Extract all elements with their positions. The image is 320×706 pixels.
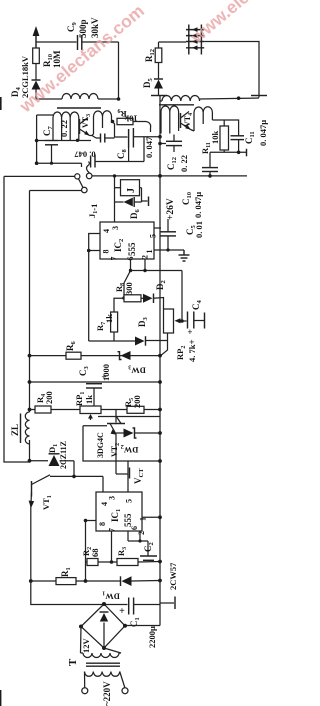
T4 primary winding A <box>161 106 179 134</box>
svg-text:0. 01: 0. 01 <box>194 221 204 238</box>
svg-text:1000: 1000 <box>101 364 111 381</box>
left bus x4 (switch A return) <box>4 176 30 462</box>
svg-text:ZL: ZL <box>10 424 20 436</box>
svg-text:0. 22: 0. 22 <box>179 155 189 172</box>
IC2 pin5 wire and ground <box>154 248 190 261</box>
svg-text:+: + <box>119 606 125 617</box>
svg-text:200: 200 <box>132 395 142 408</box>
capacitor C1 2200u <box>129 598 160 615</box>
IC2 pin6/2 wires down <box>124 259 182 321</box>
capacitor C3 1000 <box>86 384 102 406</box>
svg-text:2CZ11Z: 2CZ11Z <box>59 441 68 469</box>
stub C8 right leg <box>143 137 145 162</box>
VT2 base wire to pin5 rail (y461) <box>83 426 162 463</box>
T3 primary winding A <box>53 112 79 140</box>
right bus bottom / output terminal <box>160 581 175 626</box>
capacitor C9 500p 30kV <box>78 35 119 50</box>
capacitor C4 <box>180 312 204 329</box>
wire R9 node down to C8 <box>113 122 128 138</box>
resistor R11 10k <box>220 126 229 150</box>
resistor R1 <box>56 578 76 585</box>
resistor R8 300 <box>124 295 141 302</box>
T4 core <box>159 104 194 106</box>
rail R6/DW3 (y355.6) <box>30 355 161 357</box>
IC1 pin6/2 wires + capacitor C2 <box>128 531 157 560</box>
resistor R7 1k <box>111 298 124 341</box>
svg-text:3: 3 <box>108 496 117 500</box>
T3 primary winding B <box>92 111 112 136</box>
op-amp-timer IC2 555 <box>100 222 154 259</box>
DC+ rail (y604.5) <box>31 581 128 605</box>
capacitor C7 <box>37 141 58 165</box>
wire VT2 collector rail <box>98 416 160 418</box>
resistor R6 <box>66 352 81 359</box>
svg-text:6: 6 <box>130 526 139 530</box>
R2/R3 rail (y562) <box>86 531 118 564</box>
transformer T secondary <box>81 627 122 658</box>
zener DW3 <box>118 351 131 360</box>
terminal bar (D5 / T4 secondary) <box>151 95 167 97</box>
IC1 pin5 wire up <box>127 461 129 492</box>
svg-text:+26V: +26V <box>166 198 176 220</box>
electrode mesh <box>186 25 204 55</box>
svg-text:1k: 1k <box>84 395 94 404</box>
edge artifact <box>0 97 2 110</box>
IC1 pin1 wire right <box>142 515 162 519</box>
svg-text:0. 047: 0. 047 <box>144 136 154 158</box>
zener DW2 <box>116 428 160 438</box>
resistor R9 10k <box>117 118 133 124</box>
IC2 pin3 wire up <box>114 202 116 222</box>
capacitor C12 0.22 <box>160 135 182 153</box>
diode D6 <box>115 188 149 207</box>
resistor R4 200 <box>35 406 51 413</box>
svg-text:2200μ: 2200μ <box>147 626 157 648</box>
capacitor C10 0.047u <box>202 152 218 176</box>
svg-text:8: 8 <box>102 250 111 254</box>
transistor VT1 <box>29 475 50 581</box>
watermark www.elecfans.com <box>15 0 319 117</box>
diode D3 <box>89 336 149 346</box>
wire R9 right with hook <box>133 122 151 133</box>
svg-text:1k: 1k <box>104 314 114 323</box>
capacitor 0.047 (VT3 emitter) <box>92 134 115 143</box>
capacitor C5 0.01 <box>154 219 176 250</box>
timer IC1 555 <box>96 492 142 531</box>
wire T3 primary bottom rail <box>58 140 91 142</box>
T core <box>86 663 120 666</box>
svg-text:3: 3 <box>111 226 120 230</box>
svg-text:4: 4 <box>100 502 109 506</box>
wire C9 right down to T3 secondary <box>118 42 120 99</box>
svg-text:2: 2 <box>137 531 146 535</box>
rail R4/RP1/R5 (y409.5) <box>30 409 161 411</box>
svg-text:12V: 12V <box>81 638 91 654</box>
svg-text:2CW57: 2CW57 <box>168 562 178 590</box>
svg-text:500p: 500p <box>78 19 88 38</box>
node T3 secondary right <box>117 97 121 101</box>
transistor VT4 <box>181 112 195 132</box>
svg-text:10k: 10k <box>210 131 220 145</box>
svg-text:T: T <box>67 658 79 666</box>
resistor R10 <box>33 48 40 64</box>
wire T4 primary right to C11 <box>212 120 238 136</box>
svg-text:0. 047: 0. 047 <box>74 150 96 160</box>
svg-text:300: 300 <box>124 282 134 295</box>
rail C3 (y382) <box>30 381 161 383</box>
terminal bar (mesh return) <box>251 95 267 97</box>
resistor R3 <box>117 559 138 566</box>
lower rail from bridge right <box>125 625 160 627</box>
R1/DW1 rail (y581) <box>29 579 56 583</box>
wire mesh top <box>159 41 187 43</box>
wire C9 top <box>36 41 77 43</box>
node R9 left <box>111 120 115 124</box>
T4 primary winding B <box>194 107 212 131</box>
svg-text:8: 8 <box>98 522 107 526</box>
svg-text:0. 047μ: 0. 047μ <box>193 192 203 218</box>
transformer T4 secondary winding <box>160 96 259 102</box>
svg-text:200: 200 <box>44 391 54 404</box>
wire mesh right down <box>204 42 259 98</box>
svg-text:68: 68 <box>90 549 100 558</box>
resistor R12 <box>155 42 162 79</box>
transformer T3 secondary winding <box>36 94 119 100</box>
resistor R2 68 <box>87 559 98 566</box>
left bus x29.5 <box>29 191 31 413</box>
svg-text:7: 7 <box>110 257 119 261</box>
potentiometer RP1 1k <box>80 406 101 420</box>
switch J1-1 <box>4 162 115 193</box>
relay coil J1 <box>113 174 142 202</box>
capacitor C11 0.047u <box>231 136 245 153</box>
VCT terminal <box>116 468 130 479</box>
VT1 collector rail (y476) <box>50 475 103 492</box>
svg-text:5: 5 <box>149 234 158 238</box>
bridge rectifier <box>79 602 127 650</box>
T3 core <box>57 107 101 109</box>
IC1 pin8 wire left <box>84 519 96 581</box>
diode D5 <box>154 79 163 96</box>
svg-text:5: 5 <box>125 499 134 503</box>
inductor ZL <box>21 412 30 462</box>
svg-text:1: 1 <box>145 250 154 254</box>
svg-text:0. 047μ: 0. 047μ <box>258 120 268 146</box>
wire R10 to D4 <box>35 64 37 81</box>
svg-text:+: + <box>187 327 192 337</box>
zener DW1 <box>121 576 162 586</box>
left bus (C7 bus) <box>37 115 53 163</box>
wire y163 with series capacitor <box>37 155 144 168</box>
wire +26V rail (y176) <box>115 175 248 177</box>
svg-text:4. 7k+: 4. 7k+ <box>187 339 197 362</box>
svg-text:4: 4 <box>102 229 111 233</box>
diode D2 <box>141 294 164 310</box>
svg-text:J: J <box>126 188 137 193</box>
svg-text:3DG4C: 3DG4C <box>96 432 105 458</box>
transistor VT3 <box>80 118 93 136</box>
HV output arrow <box>33 26 40 48</box>
svg-text:555: 555 <box>123 513 133 527</box>
svg-text:0. 22: 0. 22 <box>59 120 69 137</box>
diode D1 2CZ11Z <box>30 454 75 477</box>
capacitor C8 0.047 <box>129 128 160 162</box>
svg-text:2: 2 <box>141 255 150 259</box>
transformer T primary <box>82 672 128 694</box>
wire R11 bottom / ground bar <box>210 149 247 157</box>
transistor VT2 3DG4C <box>107 410 125 475</box>
potentiometer RP2 4.7k <box>149 309 182 355</box>
diode D4 <box>32 80 41 99</box>
resistor R5 200 <box>127 406 144 413</box>
svg-text:555: 555 <box>127 242 137 256</box>
svg-text:~220V: ~220V <box>102 681 112 706</box>
IC2 pin8/4 wires left <box>87 234 100 342</box>
right bus (+26V bus) <box>159 96 161 581</box>
